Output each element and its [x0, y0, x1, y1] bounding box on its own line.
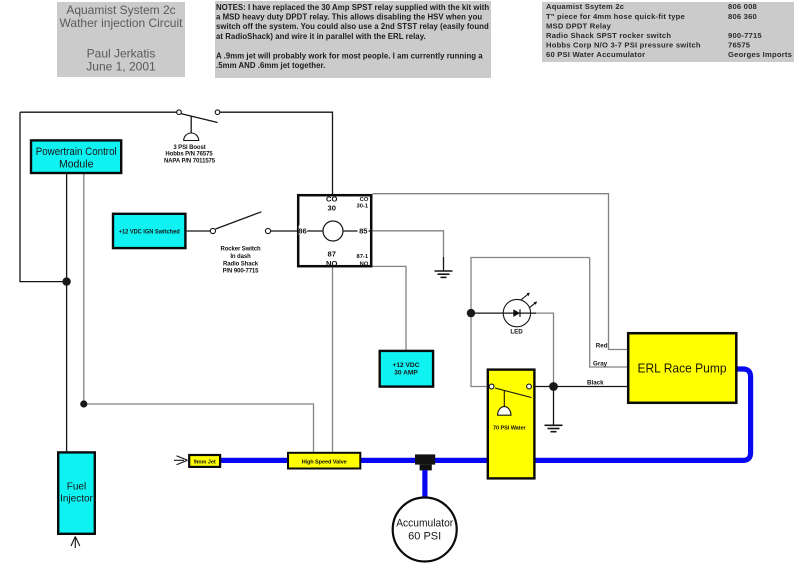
svg-text:900-7715: 900-7715	[728, 31, 762, 40]
svg-text:Wather injection Circuit: Wather injection Circuit	[60, 16, 184, 30]
svg-text:Radio Shack: Radio Shack	[223, 262, 259, 268]
svg-text:87-1: 87-1	[356, 254, 368, 260]
svg-text:Aquamist Ssytem 2c: Aquamist Ssytem 2c	[546, 2, 624, 11]
svg-text:Powertrain Control: Powertrain Control	[36, 146, 117, 158]
svg-text:Red: Red	[596, 343, 608, 350]
svg-text:9mm Jet: 9mm Jet	[194, 460, 216, 466]
svg-text:30: 30	[327, 204, 335, 213]
svg-text:High Speed Valve: High Speed Valve	[302, 459, 347, 465]
svg-text:ERL Race Pump: ERL Race Pump	[638, 361, 727, 376]
svg-text:P/N 900-7715: P/N 900-7715	[223, 269, 260, 275]
svg-text:Injector: Injector	[60, 494, 93, 505]
svg-text:LED: LED	[510, 329, 523, 336]
svg-text:MSD DPDT Relay: MSD DPDT Relay	[546, 21, 612, 30]
svg-text:NO: NO	[326, 259, 337, 268]
svg-text:+12 VDC IGN Switched: +12 VDC IGN Switched	[119, 229, 180, 236]
svg-text:3 PSI Boost: 3 PSI Boost	[173, 145, 205, 151]
svg-text:a MSD heavy duty DPDT relay. T: a MSD heavy duty DPDT relay. This allows…	[216, 13, 482, 22]
svg-text:60 PSI: 60 PSI	[408, 531, 441, 543]
svg-text:Black: Black	[587, 379, 604, 386]
svg-text:A .9mm jet will probably work: A .9mm jet will probably work for most p…	[216, 51, 483, 60]
svg-text:30-1: 30-1	[356, 204, 368, 210]
svg-text:Fuel: Fuel	[67, 482, 86, 493]
svg-text:T" piece for 4mm hose quick-fi: T" piece for 4mm hose quick-fit type	[546, 12, 685, 21]
svg-text:30 AMP: 30 AMP	[394, 370, 418, 377]
svg-text:+12 VDC: +12 VDC	[393, 362, 420, 369]
svg-text:87: 87	[327, 250, 335, 259]
svg-text:806 008: 806 008	[728, 2, 757, 11]
svg-text:CO: CO	[326, 195, 337, 204]
svg-text:June 1, 2001: June 1, 2001	[86, 60, 156, 74]
svg-text:NOTES: I have replaced the 30: NOTES: I have replaced the 30 Amp SPST r…	[216, 3, 489, 12]
svg-text:at RadioShack) and wire it in: at RadioShack) and wire it in parallel w…	[216, 32, 426, 41]
svg-text:Accumulator: Accumulator	[396, 518, 453, 530]
svg-text:806 360: 806 360	[728, 12, 757, 21]
svg-text:76575: 76575	[728, 41, 751, 50]
svg-text:Radio Shack SPST rocker switch: Radio Shack SPST rocker switch	[546, 31, 671, 40]
svg-text:NO: NO	[360, 261, 369, 267]
svg-text:Hobbs Corp N/O 3-7 PSI pressur: Hobbs Corp N/O 3-7 PSI pressure switch	[546, 41, 701, 50]
svg-text:Module: Module	[59, 159, 94, 171]
svg-text:70 PSI Water: 70 PSI Water	[493, 426, 526, 432]
svg-text:CO: CO	[360, 197, 369, 203]
svg-text:Gray: Gray	[593, 361, 608, 368]
svg-text:NAPA P/N 7011575: NAPA P/N 7011575	[164, 158, 216, 164]
svg-text:60 PSI Water Accumulator: 60 PSI Water Accumulator	[546, 50, 645, 59]
svg-text:Georges Imports: Georges Imports	[728, 50, 792, 59]
svg-text:Aquamist System 2c: Aquamist System 2c	[66, 3, 175, 17]
svg-text:In dash: In dash	[230, 254, 251, 260]
svg-text:.5mm AND .6mm jet together.: .5mm AND .6mm jet together.	[216, 61, 325, 70]
svg-text:85: 85	[359, 227, 368, 236]
svg-text:Hobbs P/N 76575: Hobbs P/N 76575	[165, 152, 213, 158]
svg-text:Rocker Switch: Rocker Switch	[220, 247, 260, 253]
svg-text:Paul Jerkatis: Paul Jerkatis	[87, 47, 156, 61]
svg-text:86: 86	[298, 227, 306, 236]
svg-text:switch off the system. You cou: switch off the system. You could also us…	[216, 22, 489, 31]
